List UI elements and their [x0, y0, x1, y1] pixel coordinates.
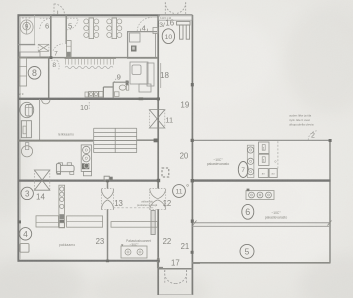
svg-text:o: o [275, 160, 277, 164]
wall wc left small [39, 99, 41, 140]
entrance mat [159, 16, 192, 20]
svg-text:pakastevarasto: pakastevarasto [207, 162, 230, 166]
cabinet room8 [19, 58, 26, 86]
svg-text:pakastevarasto: pakastevarasto [265, 215, 288, 219]
tiny o near junction [187, 185, 189, 187]
stairs direction line [93, 140, 154, 142]
wall bottom main [18, 260, 159, 262]
toilet bowl [20, 102, 34, 117]
cabinet beside wall x66 [66, 41, 71, 58]
desk leg left [180, 25, 183, 39]
tag 9 [23, 22, 31, 30]
work table right [67, 216, 103, 227]
svg-text:14: 14 [36, 193, 45, 202]
wall corridor left lower [157, 209, 159, 295]
dash after 10 [88, 102, 90, 110]
wall vestibule top [159, 268, 193, 270]
wall ext right [329, 140, 331, 263]
svg-text:1: 1 [263, 159, 265, 163]
svg-text:21: 21 [181, 242, 190, 251]
dashed service line [277, 141, 279, 168]
svg-text:9: 9 [117, 72, 121, 81]
svg-text:1: 1 [263, 147, 265, 151]
svg-text:10: 10 [80, 103, 88, 112]
door 8 arc [51, 59, 57, 61]
tick dim right [328, 221, 332, 226]
svg-text:8: 8 [32, 68, 37, 78]
wall corridor right [191, 15, 193, 295]
wall top main [18, 14, 161, 16]
wc walls [103, 82, 129, 97]
door 6 arc [40, 18, 51, 29]
toilet tank [25, 105, 32, 117]
pier right of hall [151, 211, 155, 235]
bench room vestibule [20, 52, 40, 57]
desk office [130, 62, 148, 84]
door leaf dash right [185, 2, 187, 14]
door arcs bottom exit [164, 270, 175, 284]
svg-text:19: 19 [180, 100, 189, 109]
machine column left of stairs [81, 145, 91, 172]
tag 8 [28, 67, 41, 80]
tag 3 [21, 187, 33, 199]
wall h2 big across [18, 98, 160, 100]
table room23 [111, 222, 158, 228]
container column [247, 145, 254, 177]
stairs treads [94, 128, 137, 152]
entrance arc left [165, 3, 175, 14]
svg-text:7: 7 [54, 51, 58, 58]
overhead dashed [113, 207, 154, 209]
svg-text:6: 6 [245, 207, 250, 217]
stairs sides [94, 128, 137, 152]
svg-text:22: 22 [163, 237, 172, 246]
svg-text:ulkopuolella olevia: ulkopuolella olevia [289, 122, 314, 126]
svg-text:puolielementtejä: puolielementtejä [137, 203, 158, 207]
machine column [59, 185, 65, 228]
svg-text:pakkaamo: pakkaamo [59, 243, 75, 247]
tag 7 ellipse [238, 162, 248, 178]
corridor doorframe inner line [160, 63, 162, 88]
swing door corridor [150, 189, 166, 210]
wall ext top [192, 139, 331, 141]
washbasin ellipse room9 [20, 20, 33, 34]
wall room5 top [193, 225, 331, 227]
swing door room23 [101, 189, 113, 210]
svg-text:4: 4 [142, 23, 146, 32]
wall ext bottom [192, 262, 331, 264]
tag 10 [162, 29, 174, 44]
wall room6 right [50, 15, 52, 58]
tall cabinet [21, 121, 31, 138]
svg-text:leikkaamo: leikkaamo [58, 133, 74, 137]
storage square room4b [20, 244, 29, 253]
wall h1 continuation [51, 57, 128, 59]
svg-text:12: 12 [163, 199, 172, 208]
marks under top wall room9 [22, 17, 32, 19]
wall top vestibule thin [158, 14, 193, 16]
rack scallops [65, 66, 113, 68]
wall h3 left [18, 140, 93, 142]
rack rail [65, 58, 117, 60]
socket on wall office [126, 81, 129, 86]
bowtie hatch h4 wall [34, 170, 49, 190]
box on wall [104, 176, 109, 180]
svg-text:9: 9 [25, 24, 29, 31]
wall h1 left thick [18, 57, 52, 59]
wall room4 top [127, 31, 157, 33]
door 5 arc [67, 18, 78, 29]
chairs group [84, 19, 122, 38]
niche left of vestibule [153, 28, 158, 34]
svg-text:10: 10 [165, 34, 173, 41]
svg-text:18: 18 [160, 71, 169, 80]
wall room4 bottom [127, 57, 158, 59]
tag 6 [242, 204, 254, 219]
svg-text:nyrk. Ele It ovat: nyrk. Ele It ovat [289, 118, 310, 122]
svg-text:7: 7 [241, 167, 245, 174]
inner face line top wall [19, 16, 158, 18]
wall room4 right inner [155, 33, 157, 57]
svg-text:11: 11 [165, 115, 173, 124]
door 6 dash [40, 17, 51, 19]
dark unit room4 [131, 46, 137, 52]
wall ext middle thick [192, 179, 331, 181]
entrance arc right [176, 3, 186, 14]
wall h4 big across [18, 179, 160, 181]
square units [259, 142, 278, 178]
svg-text:23: 23 [96, 237, 105, 246]
ticks above room4 wall [140, 29, 142, 32]
door 5 dash [67, 17, 78, 19]
wall room8 right [48, 57, 50, 99]
dimension line rooms 6-5 [194, 222, 330, 224]
stairs arrow [154, 139, 158, 143]
svg-text:20: 20 [180, 151, 189, 160]
inner face line left wall [19, 16, 21, 260]
pedestal sink [21, 146, 32, 157]
svg-text:3/: 3/ [159, 22, 165, 29]
wall h3 right stub [137, 139, 158, 141]
table 2 [112, 18, 117, 39]
door 10 bump arc [42, 100, 50, 104]
wall room4 left [127, 32, 129, 58]
desk leg right [186, 25, 189, 39]
door top entrance near room7 [53, 4, 55, 15]
svg-text:~30C°: ~30C° [130, 243, 140, 247]
vent mark [121, 244, 123, 246]
svg-text:13: 13 [114, 199, 123, 208]
svg-text:3: 3 [25, 190, 30, 199]
door 7 arc [53, 44, 63, 51]
door leaf dashes bottom exit [164, 270, 166, 284]
wall corridor left [157, 15, 159, 189]
appliance row kitchen [89, 91, 103, 97]
svg-text:8: 8 [52, 62, 56, 69]
wall left main [17, 14, 19, 261]
svg-text:4: 4 [23, 229, 28, 239]
wc sink [114, 92, 119, 97]
tiny circle mark bottom wall [157, 258, 159, 260]
wall room23 left [107, 181, 109, 189]
desk top [177, 21, 190, 25]
door 4 arc [137, 18, 151, 31]
bowtie hatch corridor wall [149, 110, 164, 128]
tag 4b [19, 228, 31, 240]
svg-text:2: 2 [311, 133, 315, 140]
door 9 arc [114, 76, 120, 82]
tick dim left [193, 221, 197, 226]
svg-text:c 9: c 9 [19, 92, 23, 96]
svg-text:~10C°: ~10C° [271, 211, 281, 215]
door leaf dash left [164, 2, 166, 14]
swing hatch room9 bottom [38, 44, 49, 51]
svg-text:17: 17 [171, 259, 180, 268]
svg-text:5: 5 [245, 247, 250, 257]
rack teeth [66, 59, 114, 65]
wall below room9 [18, 44, 35, 46]
svg-text:uuden liike ja tila: uuden liike ja tila [289, 114, 312, 118]
svg-text:6: 6 [45, 22, 49, 31]
wall room5 left [65, 15, 67, 44]
tag 5 [240, 244, 254, 258]
freezer unit box [121, 246, 147, 258]
svg-text:3.115 1:10: 3.115 1:10 [160, 17, 172, 20]
table room4 [130, 33, 141, 42]
step at main bottom right [158, 261, 200, 268]
fan circles [248, 147, 254, 153]
tag 11 [173, 185, 186, 198]
mixer machine [58, 163, 62, 166]
small appliance left [85, 92, 88, 97]
svg-text:5: 5 [68, 22, 72, 31]
toilet [119, 85, 126, 90]
wall between room9 and room6 [34, 15, 36, 45]
svg-text:11: 11 [175, 189, 182, 196]
wall vestibule bottom faint [159, 294, 193, 296]
table 1 [89, 18, 94, 39]
wall room23 left lower [107, 209, 109, 261]
work table left [36, 216, 59, 227]
